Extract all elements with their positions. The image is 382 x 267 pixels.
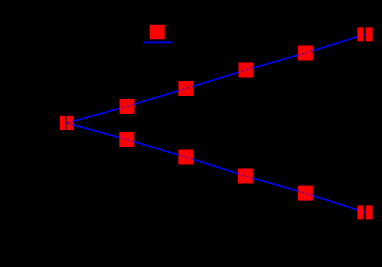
node D3 (238, 169, 253, 184)
node D5 end (right half) (366, 205, 373, 219)
node D2 (178, 150, 193, 165)
node D5 end (left half) (357, 205, 363, 219)
node U3 (239, 63, 254, 78)
node S0 root (left half) (60, 116, 65, 130)
node S0 root (right half) (67, 116, 74, 130)
node U1 (120, 99, 135, 114)
wire overlay: dashed crossing on lower-branch nodes (67, 123, 365, 212)
node D4 (298, 186, 313, 201)
node U2 (178, 81, 193, 96)
wire: upper branch (67, 34, 365, 123)
node D1 (119, 132, 134, 147)
node U5 end (left half) (357, 27, 363, 41)
node U5 end (right half) (366, 27, 373, 41)
node U4 (298, 46, 313, 61)
legend marker sample (150, 25, 165, 40)
wire overlay: dashed crossing on upper-branch nodes (67, 34, 365, 123)
legend line sample (143, 41, 172, 43)
wire: lower branch (67, 123, 365, 212)
